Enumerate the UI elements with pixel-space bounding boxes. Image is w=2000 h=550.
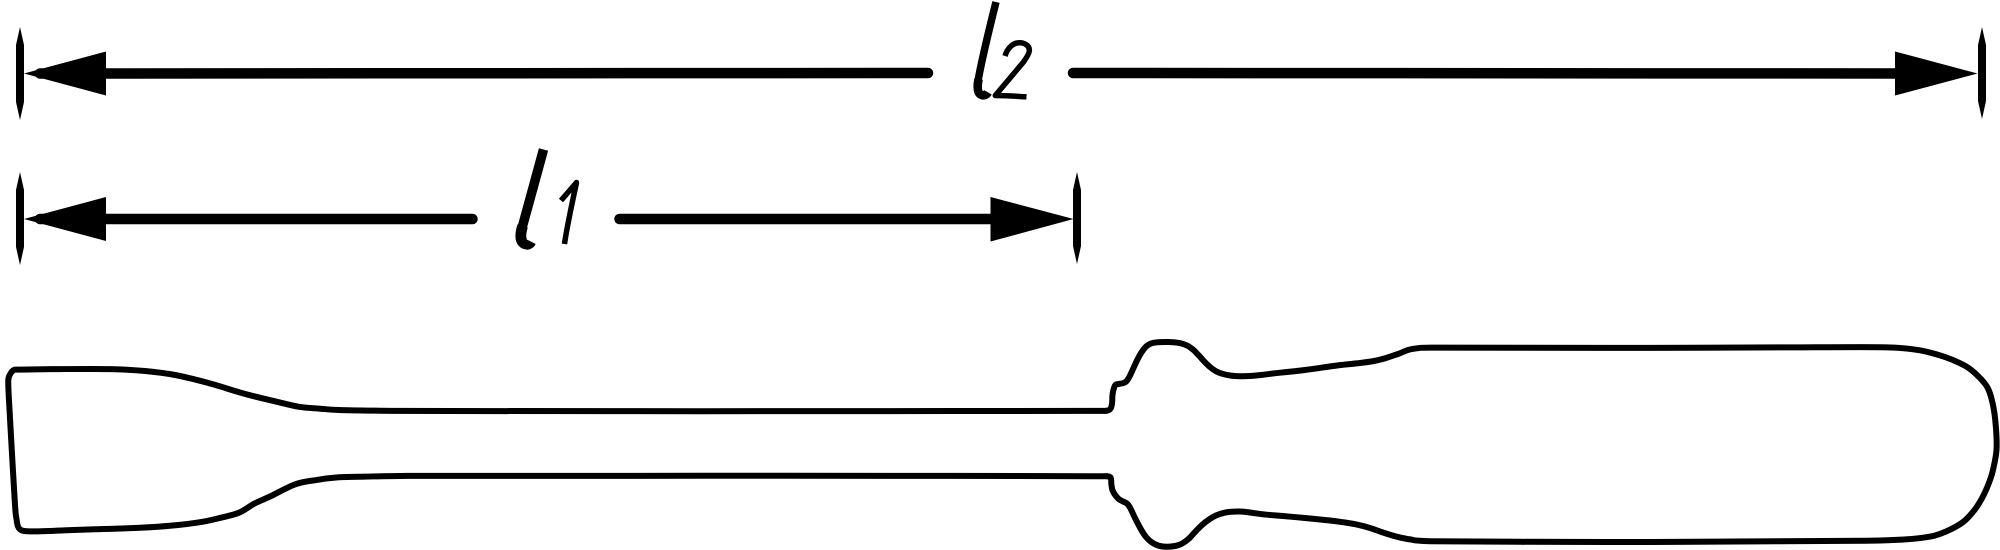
- dimension l1: right line segment: [620, 214, 1001, 225]
- dimension l2: left arrowhead: [24, 52, 106, 96]
- dimension l2: left tick: [16, 27, 24, 120]
- dimension l2: right arrowhead: [1895, 52, 1978, 96]
- label l2: letter l: [977, 2, 996, 86]
- dimension l1: left tick: [16, 172, 24, 265]
- dimension l1: right arrowhead: [991, 197, 1074, 242]
- tool outline: scraper blade, shaft and handle: [8, 342, 1996, 547]
- dimension l2: right tick: [1978, 27, 1986, 119]
- label l1: letter l: [521, 150, 544, 233]
- dimension l2: left line segment: [40, 68, 928, 79]
- label l1: subscript 1: [561, 183, 577, 245]
- dimension l1: right tick: [1073, 172, 1081, 264]
- dimension l1: left arrowhead: [24, 197, 106, 241]
- dimension l1: left line segment: [40, 214, 473, 225]
- dimension l2: right line segment: [1073, 68, 1940, 79]
- label l2: subscript 2: [995, 43, 1029, 97]
